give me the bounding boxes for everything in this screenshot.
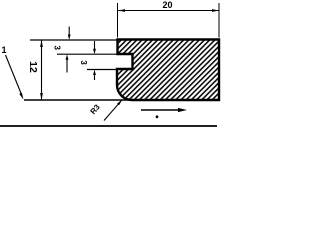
svg-text:3: 3: [53, 45, 62, 50]
svg-text:1: 1: [2, 45, 7, 55]
svg-text:12: 12: [27, 61, 39, 73]
svg-text:R3: R3: [88, 102, 102, 116]
svg-text:3: 3: [79, 60, 88, 65]
svg-text:20: 20: [162, 0, 172, 10]
